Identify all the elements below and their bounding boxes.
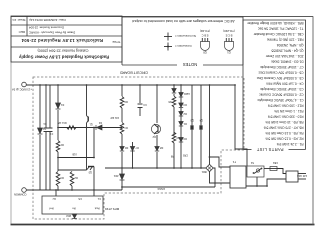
svg-text:C5 - 0.0033uF 50V Ceramic Disc: C5 - 0.0033uF 50V Ceramic Disc — [256, 76, 303, 80]
svg-text:C6 - 0.001uF 50V Ceramic Disc: C6 - 0.001uF 50V Ceramic Disc — [258, 71, 303, 75]
AC switch tap wire — [256, 177, 258, 186]
wire Y89.5 — [58, 157, 94, 159]
vertical X226 wire — [93, 167, 95, 197]
svg-text:R4, R5 - 0.15 Ohm 5W 5%: R4, R5 - 0.15 Ohm 5W 5% — [265, 131, 303, 135]
resistor upper on X146 — [172, 132, 176, 143]
junction dots — [39, 84, 41, 86]
svg-text:Q5: Q5 — [203, 51, 207, 55]
note TO-92 outline Q1-Q4 — [223, 29, 235, 55]
bridge to top rail wire — [213, 168, 215, 187]
emitter resistor R3 on X262 — [56, 171, 60, 186]
svg-text:Sheet: 1/1: Sheet: 1/1 — [12, 18, 26, 22]
plug prong upper — [298, 178, 306, 180]
capacitor C3 on X180 — [138, 104, 143, 108]
bridge minus vertical to bottom rail — [209, 85, 211, 164]
page border bottom line — [11, 16, 313, 18]
svg-text:Date: 4/26/2005 09:54:14p: Date: 4/26/2005 09:54:14p — [29, 18, 66, 22]
svg-text:CB1: CB1 — [272, 161, 278, 165]
top rail jog — [121, 187, 123, 190]
svg-text:All DC reference voltages are: All DC reference voltages are with no lo… — [132, 19, 234, 23]
svg-text:18VAC: 18VAC — [157, 187, 165, 190]
output transistor Q3 — [190, 85, 194, 168]
mid rail wire — [105, 167, 207, 169]
svg-text:MPS 2T26: MPS 2T26 — [105, 207, 120, 211]
svg-text:R10 - 330 Ohm 1/4W 5%: R10 - 330 Ohm 1/4W 5% — [268, 115, 304, 119]
svg-text:COMMON: COMMON — [14, 193, 27, 197]
fuse to switch wire — [264, 168, 270, 170]
cluster horizontal wire Y77 — [58, 169, 87, 171]
vertical X233.5 wire with transistor Q1 — [86, 123, 88, 170]
vertical wire X270 — [49, 132, 51, 191]
zener diode on X280 — [38, 128, 43, 134]
zener ZD1 on X198 — [120, 174, 125, 180]
svg-text:R11 1W: R11 1W — [57, 121, 66, 124]
IC top zener — [72, 214, 77, 219]
horizontal diode D4 on Y120 — [96, 125, 102, 130]
svg-text:ZD2: ZD2 — [66, 214, 71, 217]
svg-text:BR1 - KBU4D, 4A 400V Bridge Re: BR1 - KBU4D, 4A 400V Bridge Rectifier — [246, 21, 303, 25]
vertical wire X264 ic stub — [55, 190, 57, 196]
svg-text:U1B: U1B — [72, 153, 77, 156]
transistor Q2 on X163 — [151, 124, 160, 138]
page border frame — [11, 17, 313, 225]
small transistor Q1 — [87, 117, 89, 122]
plug prong lower — [298, 173, 306, 175]
svg-text:NOTES: NOTES — [183, 62, 198, 67]
svg-text:Vout: Vout — [95, 207, 100, 211]
bridge ac lower branch to transformer — [210, 157, 231, 167]
svg-text:Q1: Q1 — [227, 51, 231, 55]
driver transistor Q5 bar — [88, 166, 94, 168]
svg-text:120 VAC: 120 VAC — [297, 174, 307, 178]
AC line B wire — [246, 179, 286, 186]
neon lamp NE1 — [256, 169, 259, 172]
svg-text:C4 - 0.1uF 50V Mylar Film: C4 - 0.1uF 50V Mylar Film — [266, 82, 304, 86]
title block row line 1 — [11, 46, 122, 48]
svg-text:LED1: LED1 — [183, 92, 190, 95]
svg-text:PARTS LIST: PARTS LIST — [256, 147, 283, 152]
notes box top edge left segment — [203, 64, 243, 66]
svg-text:B C E: B C E — [225, 34, 232, 38]
title block divider REV cell — [26, 16, 28, 36]
vertical wire X274 — [45, 132, 47, 191]
parts list top edge right segment — [243, 149, 252, 151]
svg-text:10k 2W: 10k 2W — [110, 116, 119, 119]
note legend no connection — [164, 33, 196, 41]
svg-text:BR1: BR1 — [201, 170, 206, 173]
svg-text:T1: T1 — [232, 160, 236, 164]
diode D9 on X139 — [179, 138, 183, 143]
svg-text:ZD1 - 1N4744A 15V Zener: ZD1 - 1N4744A 15V Zener — [265, 54, 304, 58]
svg-text:TITLE:: TITLE: — [112, 40, 121, 44]
AC line A to fuse wire — [277, 169, 286, 174]
title block row line 2 — [11, 35, 122, 37]
capacitor C1 on X270 — [48, 128, 53, 132]
page border left line — [312, 17, 314, 225]
parts list lines — [246, 21, 303, 146]
notes box outline — [122, 17, 243, 65]
svg-text:R8, R9 - 10 Ohm 1/4W 5%: R8, R9 - 10 Ohm 1/4W 5% — [265, 120, 303, 124]
vertical wire X180 — [139, 108, 141, 116]
output terminal positive — [22, 82, 27, 87]
svg-text:S1: S1 — [250, 161, 254, 165]
note TO-92 outline Q5 — [200, 29, 210, 55]
vertical chain X198 — [121, 180, 123, 187]
diode chain X139 — [180, 142, 182, 168]
regulator IC box — [42, 196, 103, 214]
switch box S1 — [247, 166, 264, 177]
top rail wire left — [122, 186, 215, 188]
svg-text:E B C: E B C — [201, 34, 208, 38]
svg-text:REV:: REV: — [18, 30, 25, 34]
diode D1 on X262 — [56, 103, 61, 109]
svg-text:Catalog Number 22-504 (2000): Catalog Number 22-504 (2000) — [37, 49, 88, 53]
vertical wire X280 — [39, 135, 41, 190]
svg-text:RadioShack 13.8V Regulated 22-: RadioShack 13.8V Regulated 22-504 — [21, 38, 103, 43]
svg-text:CB1 - 2.5A 120VAC Circuit Brea: CB1 - 2.5A 120VAC Circuit Breaker — [253, 32, 304, 36]
svg-text:D1-D3 - 1N4001 Diode: D1-D3 - 1N4001 Diode — [271, 60, 304, 64]
rail stepped wire to switch — [235, 85, 247, 166]
svg-text:+13.8VDC @ 3A: +13.8VDC @ 3A — [12, 88, 32, 92]
svg-text:Drawn By Peter Szymczyk - K0AR: Drawn By Peter Szymczyk - K0ARC — [29, 31, 75, 35]
vertical wire X146 two resistors — [173, 143, 175, 168]
svg-text:(TO-220): (TO-220) — [223, 29, 235, 33]
diode D10 on X146 — [172, 89, 176, 94]
svg-text:C3 - 100uF 35VDC Electrolytic: C3 - 100uF 35VDC Electrolytic — [260, 87, 304, 91]
resistor upper on X198 — [120, 123, 124, 134]
svg-text:CS: CS — [78, 197, 82, 201]
capacitor C7 on X274 — [44, 128, 49, 132]
svg-text:R12 - 100 Ohm 1/4W 5%: R12 - 100 Ohm 1/4W 5% — [268, 104, 304, 108]
parts list box outline — [243, 20, 306, 150]
resistor R1 on X262 — [56, 141, 60, 152]
fuse CB1 — [270, 167, 277, 171]
output terminal common — [22, 188, 27, 193]
svg-text:Q1-Q4 - NPN, 2N3055: Q1-Q4 - NPN, 2N3055 — [271, 49, 303, 53]
wire Y120 — [58, 127, 122, 129]
svg-text:C2 - 0.0022uF 50VDC Ceramic: C2 - 0.0022uF 50VDC Ceramic — [259, 93, 304, 97]
svg-text:CL: CL — [97, 197, 101, 201]
emitter resistor R2 X248 — [71, 186, 73, 190]
transformer T1 — [230, 166, 246, 188]
notes box top edge right segment — [122, 64, 177, 66]
svg-text:Document Number: 22-504: Document Number: 22-504 — [29, 26, 64, 30]
svg-text:T1 - 120VAC Pri, 18VAC 5A Sec: T1 - 120VAC Pri, 18VAC 5A Sec — [258, 27, 304, 31]
svg-text:R6, R7 - 270 Ohm 1/4W 5%: R6, R7 - 270 Ohm 1/4W 5% — [264, 126, 304, 130]
svg-text:Connection =: Connection = — [175, 44, 192, 48]
svg-text:CIRCUIT BOARD: CIRCUIT BOARD — [119, 71, 148, 75]
horizontal resistor R11 on Y120 — [67, 126, 76, 130]
svg-text:(TO-92): (TO-92) — [200, 29, 210, 33]
bridge rectifier BR1 — [201, 164, 213, 173]
title block outline — [11, 16, 122, 62]
svg-text:R1 - 2.2k 1/4W 5%: R1 - 2.2k 1/4W 5% — [277, 142, 304, 146]
svg-text:CR5: CR5 — [182, 154, 188, 157]
output transistor Q4 — [199, 85, 203, 168]
svg-text:RadioShack Regulated 13.8V Pow: RadioShack Regulated 13.8V Power Supply — [18, 55, 109, 60]
vertical wire X163 — [156, 152, 158, 168]
resistor lower on X198 — [120, 97, 124, 108]
svg-text:ZD1: ZD1 — [113, 174, 118, 177]
svg-text:R11 - 1 Ohm 1W 5%: R11 - 1 Ohm 1W 5% — [274, 109, 303, 113]
small diode D8 on X163 — [155, 147, 159, 152]
svg-text:Q5 - NPN, 2N3904: Q5 - NPN, 2N3904 — [277, 43, 304, 47]
note legend connection — [164, 43, 192, 51]
svg-text:C1 - 4,700uF 35VDC Electrolyti: C1 - 4,700uF 35VDC Electrolytic — [257, 98, 303, 102]
page border top heavy line — [11, 224, 315, 226]
svg-text:R2, R3 - 0.15 Ohm 5W 5%: R2, R3 - 0.15 Ohm 5W 5% — [265, 137, 303, 141]
parts list top edge left segment — [289, 149, 306, 151]
svg-text:C7 - 100uF 35VDC Electrolytic: C7 - 100uF 35VDC Electrolytic — [260, 65, 304, 69]
top rail wire right — [27, 189, 123, 191]
AC plug — [286, 171, 298, 182]
short vertical X187.5 with diode D7 — [132, 151, 134, 168]
svg-text:NE1 - 120 (NE-2) Trimline: NE1 - 120 (NE-2) Trimline — [267, 38, 304, 42]
switch lever — [254, 168, 262, 174]
title block row line 3 — [11, 24, 122, 26]
bridge ac upper wire to transformer — [210, 172, 231, 183]
svg-text:Vref: Vref — [49, 207, 54, 211]
vertical wire X262 long — [57, 186, 59, 190]
bottom rail wire — [27, 84, 236, 86]
resistor lower on X146 — [172, 96, 176, 107]
small diode D6 on X198 — [120, 147, 124, 152]
circuit board dashed outline — [33, 77, 244, 219]
svg-text:Vin: Vin — [72, 207, 76, 211]
svg-text:No Connection =: No Connection = — [175, 34, 196, 38]
